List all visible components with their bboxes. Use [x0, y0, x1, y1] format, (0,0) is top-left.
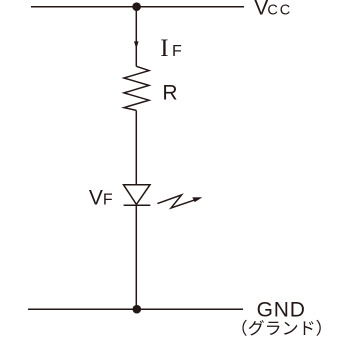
svg-text:GND: GND [257, 299, 306, 322]
node junction on GND rail [133, 305, 142, 314]
wire GND rail [28, 308, 243, 310]
svg-text:V: V [254, 0, 268, 20]
LED cathode bar [124, 204, 151, 206]
svg-text:R: R [162, 81, 177, 104]
svg-text:F: F [172, 43, 182, 60]
wire from VCC rail to resistor [135, 7, 137, 67]
svg-text:VF: VF [89, 186, 113, 209]
light emission arrow [157, 195, 196, 208]
LED anode triangle [124, 185, 151, 205]
wire from LED to GND rail [135, 204, 137, 309]
wire VCC rail [31, 6, 244, 8]
node junction on VCC rail [132, 2, 141, 11]
svg-text:CC: CC [267, 3, 292, 19]
arrow IF current direction [134, 41, 139, 48]
label (グランド) [242, 320, 320, 336]
wire from resistor to LED [135, 110, 137, 184]
svg-text:I: I [160, 35, 168, 62]
light arrow head [192, 197, 202, 202]
resistor R [124, 66, 149, 110]
